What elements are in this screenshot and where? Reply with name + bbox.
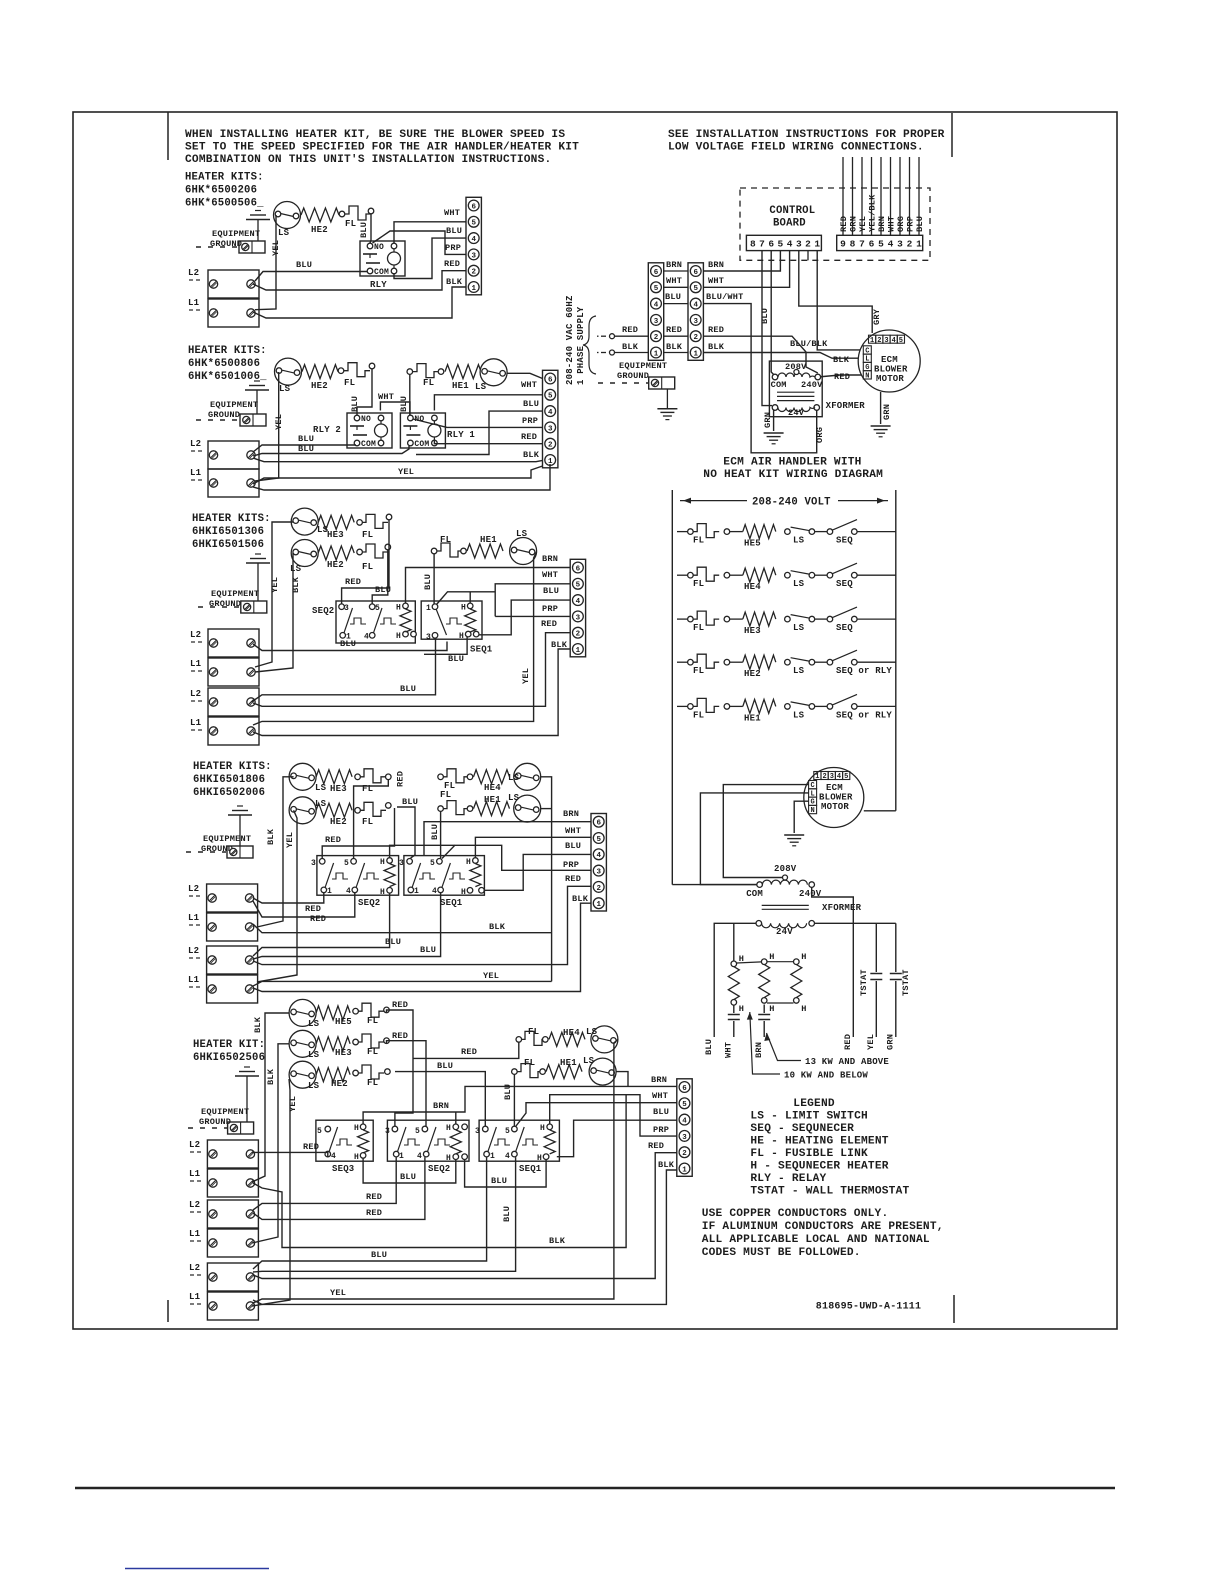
jumper BRN A6-B6 bbox=[664, 270, 688, 272]
svg-text:BLK: BLK bbox=[489, 922, 506, 932]
svg-text:SEQ - SEQUNECER: SEQ - SEQUNECER bbox=[750, 1123, 854, 1135]
terminal node bbox=[386, 514, 392, 520]
limit switch LS2 kit4 bbox=[289, 797, 316, 824]
ladder rung HE3 bbox=[677, 618, 688, 620]
supply dashes BLK bbox=[601, 352, 606, 354]
resistor H SEQ3 kit5 bbox=[358, 1130, 369, 1153]
svg-text:5: 5 bbox=[899, 337, 903, 345]
ground kit3 bbox=[255, 553, 261, 555]
svg-text:YEL: YEL bbox=[858, 216, 868, 232]
transformer ladder bbox=[757, 882, 763, 888]
svg-text:RED: RED bbox=[303, 1142, 319, 1152]
svg-text:PRP: PRP bbox=[522, 416, 538, 426]
wire motor G to ground ladder bbox=[794, 801, 808, 833]
wire L1 YEL long kit2 bbox=[253, 466, 543, 484]
switch SEQ1-b kit4 bbox=[442, 863, 451, 887]
svg-text:BLU: BLU bbox=[420, 945, 436, 955]
svg-text:HE4: HE4 bbox=[563, 1028, 580, 1038]
svg-text:FL: FL bbox=[693, 666, 704, 676]
svg-text:BLU: BLU bbox=[385, 937, 401, 947]
terminal node bbox=[407, 369, 413, 375]
svg-text:COMBINATION ON THIS UNIT'S INS: COMBINATION ON THIS UNIT'S INSTALLATION … bbox=[185, 154, 551, 166]
svg-text:2: 2 bbox=[548, 442, 553, 450]
svg-text:H: H bbox=[769, 1004, 774, 1014]
wire seq1 H bottom down kit3 bbox=[424, 637, 467, 654]
svg-text:H: H bbox=[801, 952, 806, 962]
wire RED 2 to L2c kit5 bbox=[253, 1153, 677, 1279]
svg-text:8: 8 bbox=[750, 239, 756, 250]
wire YEL vertical kit4 bbox=[257, 810, 297, 982]
svg-text:HE4: HE4 bbox=[744, 582, 761, 592]
wire 24V left to BLU drop bbox=[714, 923, 756, 1037]
svg-text:RED: RED bbox=[622, 325, 638, 335]
svg-text:RED: RED bbox=[839, 216, 849, 232]
connector strip kit5 bbox=[677, 1079, 692, 1177]
svg-text:4: 4 bbox=[331, 1152, 336, 1161]
svg-text:HEATER KIT:: HEATER KIT: bbox=[193, 1039, 265, 1051]
svg-text:L1: L1 bbox=[190, 718, 202, 728]
svg-text:H: H bbox=[380, 888, 385, 897]
svg-text:BLK: BLK bbox=[622, 342, 639, 352]
svg-text:COM: COM bbox=[374, 268, 389, 277]
svg-text:COM: COM bbox=[361, 440, 376, 449]
motor pin column CLGN bbox=[863, 346, 871, 354]
svg-text:BRN: BRN bbox=[754, 1042, 764, 1058]
wire BLK vertical a kit5 bbox=[252, 1013, 289, 1182]
svg-text:L1: L1 bbox=[188, 975, 200, 985]
wire RED 2 to coil RLY1 bottom kit2 bbox=[434, 440, 542, 444]
terminal block L1 kit1 bbox=[208, 299, 259, 327]
svg-text:BLK: BLK bbox=[266, 1068, 276, 1085]
svg-text:SEQ2: SEQ2 bbox=[312, 606, 334, 616]
svg-text:RLY - RELAY: RLY - RELAY bbox=[750, 1173, 826, 1185]
svg-text:3: 3 bbox=[548, 425, 553, 433]
svg-text:N: N bbox=[865, 372, 869, 380]
svg-text:FL - FUSIBLE LINK: FL - FUSIBLE LINK bbox=[750, 1148, 868, 1160]
terminal node bbox=[385, 544, 391, 550]
switch SEQ1-b kit5 bbox=[516, 1127, 525, 1152]
svg-text:FL: FL bbox=[693, 536, 704, 546]
terminal block L1a kit4 bbox=[207, 913, 258, 941]
wire BLU/WHT B4 long down bbox=[703, 304, 816, 453]
svg-text:L2: L2 bbox=[190, 439, 201, 449]
svg-text:L1: L1 bbox=[189, 1292, 201, 1302]
svg-text:BLU: BLU bbox=[653, 1107, 669, 1117]
wire GRN xformer to ground bbox=[774, 410, 775, 431]
svg-text:24V: 24V bbox=[788, 408, 805, 418]
svg-text:240V: 240V bbox=[801, 380, 823, 390]
svg-text:1: 1 bbox=[426, 604, 431, 613]
limit switch LS4 kit4 bbox=[514, 763, 541, 790]
svg-text:5: 5 bbox=[505, 1127, 510, 1136]
svg-text:BRN: BRN bbox=[666, 260, 682, 270]
wire coil RLY2 top to WHT node kit2 bbox=[380, 402, 410, 415]
svg-text:HE5: HE5 bbox=[744, 539, 761, 549]
svg-text:H: H bbox=[396, 632, 401, 641]
svg-text:FL: FL bbox=[693, 623, 704, 633]
svg-text:COM: COM bbox=[414, 440, 429, 449]
svg-text:1: 1 bbox=[414, 887, 419, 896]
svg-text:5: 5 bbox=[317, 1127, 322, 1136]
dashed equipment ground lead kit2 bbox=[196, 419, 239, 421]
connector strip kit2 bbox=[543, 370, 558, 468]
svg-text:4: 4 bbox=[837, 773, 841, 781]
svg-text:208-240 VAC 60HZ: 208-240 VAC 60HZ bbox=[565, 295, 575, 385]
svg-text:PRP: PRP bbox=[653, 1125, 669, 1135]
terminal node bbox=[512, 1069, 518, 1075]
svg-text:5: 5 bbox=[878, 239, 884, 250]
svg-text:2: 2 bbox=[877, 337, 881, 345]
svg-text:5: 5 bbox=[430, 859, 435, 868]
svg-text:3: 3 bbox=[344, 604, 349, 613]
control board dashed box bbox=[740, 188, 930, 260]
svg-text:3: 3 bbox=[576, 614, 581, 622]
svg-text:BLU: BLU bbox=[296, 260, 312, 270]
svg-text:L1: L1 bbox=[190, 659, 202, 669]
svg-text:BLU: BLU bbox=[298, 444, 314, 454]
supply dashes RED bbox=[601, 335, 606, 337]
wire RED he3 to seq2-5 kit5 bbox=[387, 1041, 427, 1127]
fusible link FL kit4 he4 bbox=[443, 769, 469, 783]
transformer core ladder bbox=[762, 904, 809, 906]
svg-text:BLU: BLU bbox=[704, 1039, 714, 1055]
terminal node bbox=[339, 211, 345, 217]
svg-text:6HK*6500206: 6HK*6500206 bbox=[185, 185, 257, 197]
wire ground stem kit2 bbox=[256, 390, 258, 414]
svg-text:RED: RED bbox=[366, 1208, 382, 1218]
svg-text:GRN: GRN bbox=[886, 1034, 896, 1050]
svg-text:PRP: PRP bbox=[542, 604, 558, 614]
svg-text:EQUIPMENT: EQUIPMENT bbox=[211, 589, 259, 599]
svg-text:WHT: WHT bbox=[887, 216, 897, 232]
svg-text:BLK: BLK bbox=[291, 576, 301, 593]
terminal node bbox=[438, 369, 444, 375]
svg-text:LS: LS bbox=[793, 579, 805, 589]
wire RED he5 down kit5 bbox=[387, 1010, 414, 1126]
svg-text:HE2: HE2 bbox=[327, 560, 344, 570]
wire L2b to seq1-4 kit4 bbox=[253, 893, 441, 959]
svg-text:SEQ1: SEQ1 bbox=[470, 645, 493, 655]
svg-text:4: 4 bbox=[346, 887, 351, 896]
resistor HE2 kit5 bbox=[316, 1068, 350, 1082]
svg-text:6: 6 bbox=[693, 269, 698, 277]
svg-text:LS: LS bbox=[315, 783, 327, 793]
motor pin row 1-5 bbox=[869, 335, 876, 343]
svg-text:NO HEAT KIT WIRING DIAGRAM: NO HEAT KIT WIRING DIAGRAM bbox=[703, 469, 883, 481]
transformer bottom winding bbox=[772, 405, 778, 411]
wire BLK 1 to L1b kit4 bbox=[253, 903, 591, 991]
limit switch LS4 kit5 bbox=[591, 1026, 618, 1053]
limit switch LS5 kit5 bbox=[289, 999, 316, 1026]
svg-text:BLU: BLU bbox=[523, 399, 539, 409]
svg-text:H: H bbox=[446, 1124, 451, 1133]
wire BLK B1 to L pin bbox=[703, 353, 863, 359]
svg-text:RED: RED bbox=[305, 904, 321, 914]
svg-text:HEATER KITS:: HEATER KITS: bbox=[188, 345, 267, 357]
resistor H3 ladder bbox=[791, 965, 802, 998]
svg-text:5: 5 bbox=[375, 604, 380, 613]
svg-text:L1: L1 bbox=[188, 913, 200, 923]
wire L2a to seq area kit3 bbox=[253, 642, 447, 651]
svg-text:H: H bbox=[537, 1154, 542, 1163]
terminal node bbox=[357, 520, 363, 526]
wire motor C to left ladder bbox=[723, 785, 808, 878]
resistor HE2 kit2 bbox=[302, 365, 338, 379]
wire H tops link bbox=[737, 962, 762, 963]
svg-text:NO: NO bbox=[374, 243, 384, 252]
svg-text:TSTAT: TSTAT bbox=[859, 969, 869, 996]
resistor HE1 kit3 bbox=[467, 544, 503, 558]
terminal node bbox=[384, 1007, 390, 1013]
svg-text:LS: LS bbox=[279, 384, 291, 394]
fusible link FL kit3 mid bbox=[362, 544, 388, 558]
wire L1 to BLK 1 kit1 bbox=[253, 287, 466, 318]
wire LS4 long vertical kit4 bbox=[541, 777, 552, 982]
wire H3 bottom to H2 bbox=[767, 1002, 794, 1004]
svg-text:GROUND: GROUND bbox=[210, 239, 242, 249]
resistor H SEQ1 kit5 bbox=[544, 1130, 555, 1154]
wire H seq3 to seq2 link kit5 bbox=[363, 1158, 456, 1183]
svg-text:5: 5 bbox=[682, 1101, 687, 1109]
svg-text:HE5: HE5 bbox=[335, 1017, 352, 1027]
svg-text:2: 2 bbox=[576, 631, 581, 639]
terminal block L1b kit3 bbox=[208, 717, 259, 745]
svg-text:BLU: BLU bbox=[915, 216, 925, 232]
svg-text:YEL: YEL bbox=[288, 1096, 298, 1112]
terminal node bbox=[353, 1039, 359, 1045]
svg-text:FL: FL bbox=[345, 219, 356, 229]
svg-text:1: 1 bbox=[490, 1152, 495, 1161]
wire YEL vertical kit3 bbox=[255, 522, 293, 667]
blue underline bbox=[125, 1568, 269, 1570]
wire L2a to seq2-4 kit4 bbox=[253, 893, 355, 917]
svg-text:H - SEQUNECER HEATER: H - SEQUNECER HEATER bbox=[750, 1161, 888, 1173]
wire L1 lower kit2 bbox=[253, 464, 550, 490]
svg-text:H: H bbox=[739, 1004, 744, 1014]
wire board-2 stub bbox=[807, 251, 809, 261]
svg-text:RLY: RLY bbox=[370, 280, 387, 290]
ECM blower motor right panel bbox=[858, 330, 920, 392]
svg-text:HE3: HE3 bbox=[327, 530, 344, 540]
sequencer SEQ1 kit4 bbox=[404, 856, 485, 896]
svg-text:WHT: WHT bbox=[378, 392, 394, 402]
terminal node bbox=[368, 208, 374, 214]
svg-text:YEL: YEL bbox=[521, 668, 531, 684]
svg-text:3: 3 bbox=[884, 337, 888, 345]
ladder right rail bbox=[895, 490, 897, 811]
supply terminal BLK bbox=[610, 350, 615, 355]
transformer 24V winding ladder bbox=[756, 921, 762, 927]
svg-text:RED: RED bbox=[310, 914, 326, 924]
wire ground stem kit3 bbox=[257, 563, 259, 601]
svg-text:SEQ1: SEQ1 bbox=[519, 1164, 542, 1174]
svg-text:4: 4 bbox=[682, 1118, 687, 1126]
limit switch LS2 kit3 bbox=[291, 540, 318, 567]
svg-text:208V: 208V bbox=[785, 362, 807, 372]
sequencer SEQ2 kit5 bbox=[387, 1120, 469, 1161]
svg-text:4: 4 bbox=[693, 302, 698, 310]
svg-text:FL: FL bbox=[693, 710, 704, 720]
wire BLU H-bottom to 4 kit5 bbox=[557, 1120, 677, 1157]
svg-text:RED: RED bbox=[366, 1192, 382, 1202]
wire coil to BLU 4 kit1 bbox=[394, 238, 466, 278]
svg-text:BLK: BLK bbox=[658, 1160, 675, 1170]
wire BRN 6 kit4 bbox=[424, 822, 591, 856]
svg-text:1: 1 bbox=[596, 901, 601, 909]
svg-text:EQUIPMENT: EQUIPMENT bbox=[203, 834, 251, 844]
svg-text:L2: L2 bbox=[188, 268, 199, 278]
svg-text:4: 4 bbox=[787, 239, 793, 250]
svg-text:L1: L1 bbox=[188, 298, 200, 308]
ladder rung HE4 bbox=[677, 574, 688, 576]
wire LS4 long vertical YEL kit5 bbox=[253, 1039, 618, 1303]
svg-text:SEE INSTALLATION INSTRUCTIONS: SEE INSTALLATION INSTRUCTIONS FOR PROPER bbox=[668, 129, 945, 141]
resistor HE3 kit3 bbox=[318, 515, 354, 529]
svg-text:4: 4 bbox=[364, 633, 369, 642]
resistor HE3 kit5 bbox=[316, 1037, 350, 1051]
motor pin row ladder bbox=[814, 772, 821, 780]
wire L2a to seq2-1 kit4 bbox=[253, 893, 324, 903]
svg-text:HE3: HE3 bbox=[744, 626, 761, 636]
dashed equipment ground lead right panel bbox=[598, 382, 648, 384]
wire ground stem kit1 bbox=[257, 220, 259, 242]
svg-text:BLK: BLK bbox=[446, 277, 463, 287]
svg-text:RED: RED bbox=[648, 1141, 664, 1151]
svg-text:LS - LIMIT SWITCH: LS - LIMIT SWITCH bbox=[750, 1111, 868, 1123]
svg-text:SEQ2: SEQ2 bbox=[428, 1164, 450, 1174]
svg-text:BLU: BLU bbox=[543, 586, 559, 596]
svg-text:ECM AIR HANDLER WITH: ECM AIR HANDLER WITH bbox=[723, 457, 861, 469]
svg-text:H: H bbox=[380, 858, 385, 867]
fusible link FL kit4 he3 bbox=[360, 769, 386, 783]
svg-text:BRN: BRN bbox=[877, 216, 887, 232]
svg-text:TSTAT: TSTAT bbox=[901, 969, 911, 996]
svg-text:L2: L2 bbox=[190, 630, 201, 640]
wire BRN H bus kit5 bbox=[363, 1086, 677, 1124]
terminal node bbox=[357, 549, 363, 555]
svg-text:6HKI6501806: 6HKI6501806 bbox=[193, 774, 265, 786]
svg-text:7: 7 bbox=[759, 239, 765, 250]
svg-text:RED: RED bbox=[843, 1034, 853, 1050]
resistor H2 ladder bbox=[759, 965, 770, 998]
ground kit1 bbox=[255, 210, 261, 212]
terminal node bbox=[543, 1037, 549, 1043]
wire BLU H-bottom to 4 kit4 bbox=[484, 854, 592, 890]
wire BLK L1a long kit4 bbox=[253, 924, 552, 933]
terminal node bbox=[516, 1037, 522, 1043]
svg-text:RED: RED bbox=[392, 1031, 408, 1041]
svg-text:ALL APPLICABLE LOCAL AND NATIO: ALL APPLICABLE LOCAL AND NATIONAL bbox=[702, 1234, 930, 1246]
svg-text:3: 3 bbox=[796, 239, 802, 250]
svg-text:HEATER KITS:: HEATER KITS: bbox=[193, 761, 272, 773]
svg-text:5: 5 bbox=[596, 836, 601, 844]
svg-text:FL: FL bbox=[367, 1047, 378, 1057]
svg-text:IF ALUMINUM CONDUCTORS ARE PRE: IF ALUMINUM CONDUCTORS ARE PRESENT, bbox=[702, 1221, 944, 1233]
svg-text:1: 1 bbox=[870, 337, 874, 345]
sequencer SEQ2 kit4 bbox=[317, 856, 399, 896]
svg-text:EQUIPMENT: EQUIPMENT bbox=[619, 361, 667, 371]
svg-text:BLU: BLU bbox=[359, 222, 369, 238]
wire L2c to seq1-1 kit5 bbox=[253, 1157, 487, 1269]
svg-text:3: 3 bbox=[897, 239, 903, 250]
svg-text:RED: RED bbox=[834, 372, 850, 382]
svg-text:HE1: HE1 bbox=[480, 535, 497, 545]
resistor HE5 kit5 bbox=[316, 1006, 350, 1020]
svg-text:6: 6 bbox=[548, 376, 553, 384]
jumper RED A2-B2 bbox=[664, 335, 688, 337]
svg-text:FL: FL bbox=[423, 378, 434, 388]
wire RED 240V to N pin bbox=[818, 375, 864, 377]
svg-text:818695-UWD-A-1111: 818695-UWD-A-1111 bbox=[816, 1302, 921, 1313]
svg-text:ORG: ORG bbox=[896, 216, 906, 232]
fusible link FL kit5 he2 bbox=[358, 1065, 384, 1079]
terminal block L1a kit3 bbox=[208, 658, 259, 686]
wire BLK L1a long kit5 bbox=[253, 1095, 626, 1248]
wire H seq2 up kit4 bbox=[390, 845, 455, 857]
svg-text:BLK: BLK bbox=[666, 342, 683, 352]
fusible link FL kit4 he2 bbox=[360, 802, 386, 816]
svg-text:FL: FL bbox=[367, 1016, 378, 1026]
svg-text:BLK: BLK bbox=[708, 342, 725, 352]
svg-text:6: 6 bbox=[576, 565, 581, 573]
svg-text:GROUND: GROUND bbox=[208, 410, 240, 420]
wire L2b to seq2-H kit4 bbox=[253, 893, 390, 956]
svg-text:L1: L1 bbox=[190, 468, 202, 478]
wire YEL LS4 to L1b kit4 bbox=[253, 981, 552, 986]
terminal node bbox=[384, 1038, 390, 1044]
svg-text:3: 3 bbox=[475, 1127, 480, 1136]
svg-text:H: H bbox=[354, 1124, 359, 1133]
svg-text:BLU: BLU bbox=[502, 1206, 512, 1222]
wire BLK vertical kit4 bbox=[257, 777, 294, 927]
svg-text:4: 4 bbox=[505, 1152, 510, 1161]
svg-text:5: 5 bbox=[654, 285, 659, 293]
svg-text:RED: RED bbox=[666, 325, 682, 335]
svg-text:L1: L1 bbox=[189, 1169, 201, 1179]
wire PRP bus kit5 bbox=[550, 1095, 677, 1136]
svg-text:6HK*6500506_: 6HK*6500506_ bbox=[185, 198, 264, 210]
svg-text:2: 2 bbox=[471, 269, 476, 277]
svg-text:LS: LS bbox=[793, 666, 805, 676]
svg-text:WHT: WHT bbox=[724, 1042, 734, 1058]
svg-text:MOTOR: MOTOR bbox=[821, 802, 849, 812]
wire motor L to left ladder bbox=[700, 793, 808, 885]
svg-text:3: 3 bbox=[399, 859, 404, 868]
sequencer SEQ1 kit5 bbox=[479, 1120, 559, 1161]
svg-text:LS: LS bbox=[516, 529, 528, 539]
svg-text:FL: FL bbox=[362, 562, 373, 572]
switch SEQ2-b kit3 bbox=[374, 608, 383, 633]
wire GRY board-3 to motor bbox=[799, 251, 872, 333]
limit switch LS1 kit3 bbox=[510, 538, 537, 565]
wire ground stem kit5 bbox=[246, 1076, 248, 1122]
svg-text:L1: L1 bbox=[189, 1229, 201, 1239]
svg-text:SET TO THE SPEED SPECIFIED FOR: SET TO THE SPEED SPECIFIED FOR THE AIR H… bbox=[185, 142, 579, 154]
wire PRP 3 to NO RLY1 kit2 bbox=[413, 419, 543, 427]
svg-text:RED: RED bbox=[708, 325, 724, 335]
wire BLU 4 kit2 bbox=[416, 411, 543, 454]
wire RED he2 to seq2-3 kit4 bbox=[322, 808, 394, 858]
svg-text:RED: RED bbox=[345, 577, 361, 587]
svg-text:RED: RED bbox=[392, 1000, 408, 1010]
wire RED fl3 to seq2-5 kit4 bbox=[354, 780, 389, 859]
tick mark top-right bbox=[951, 113, 953, 157]
svg-text:BRN: BRN bbox=[708, 260, 724, 270]
svg-text:3: 3 bbox=[682, 1134, 687, 1142]
resistor HE2 kit3 bbox=[318, 546, 354, 560]
svg-text:YEL: YEL bbox=[330, 1288, 346, 1298]
svg-text:WHT: WHT bbox=[521, 380, 537, 390]
